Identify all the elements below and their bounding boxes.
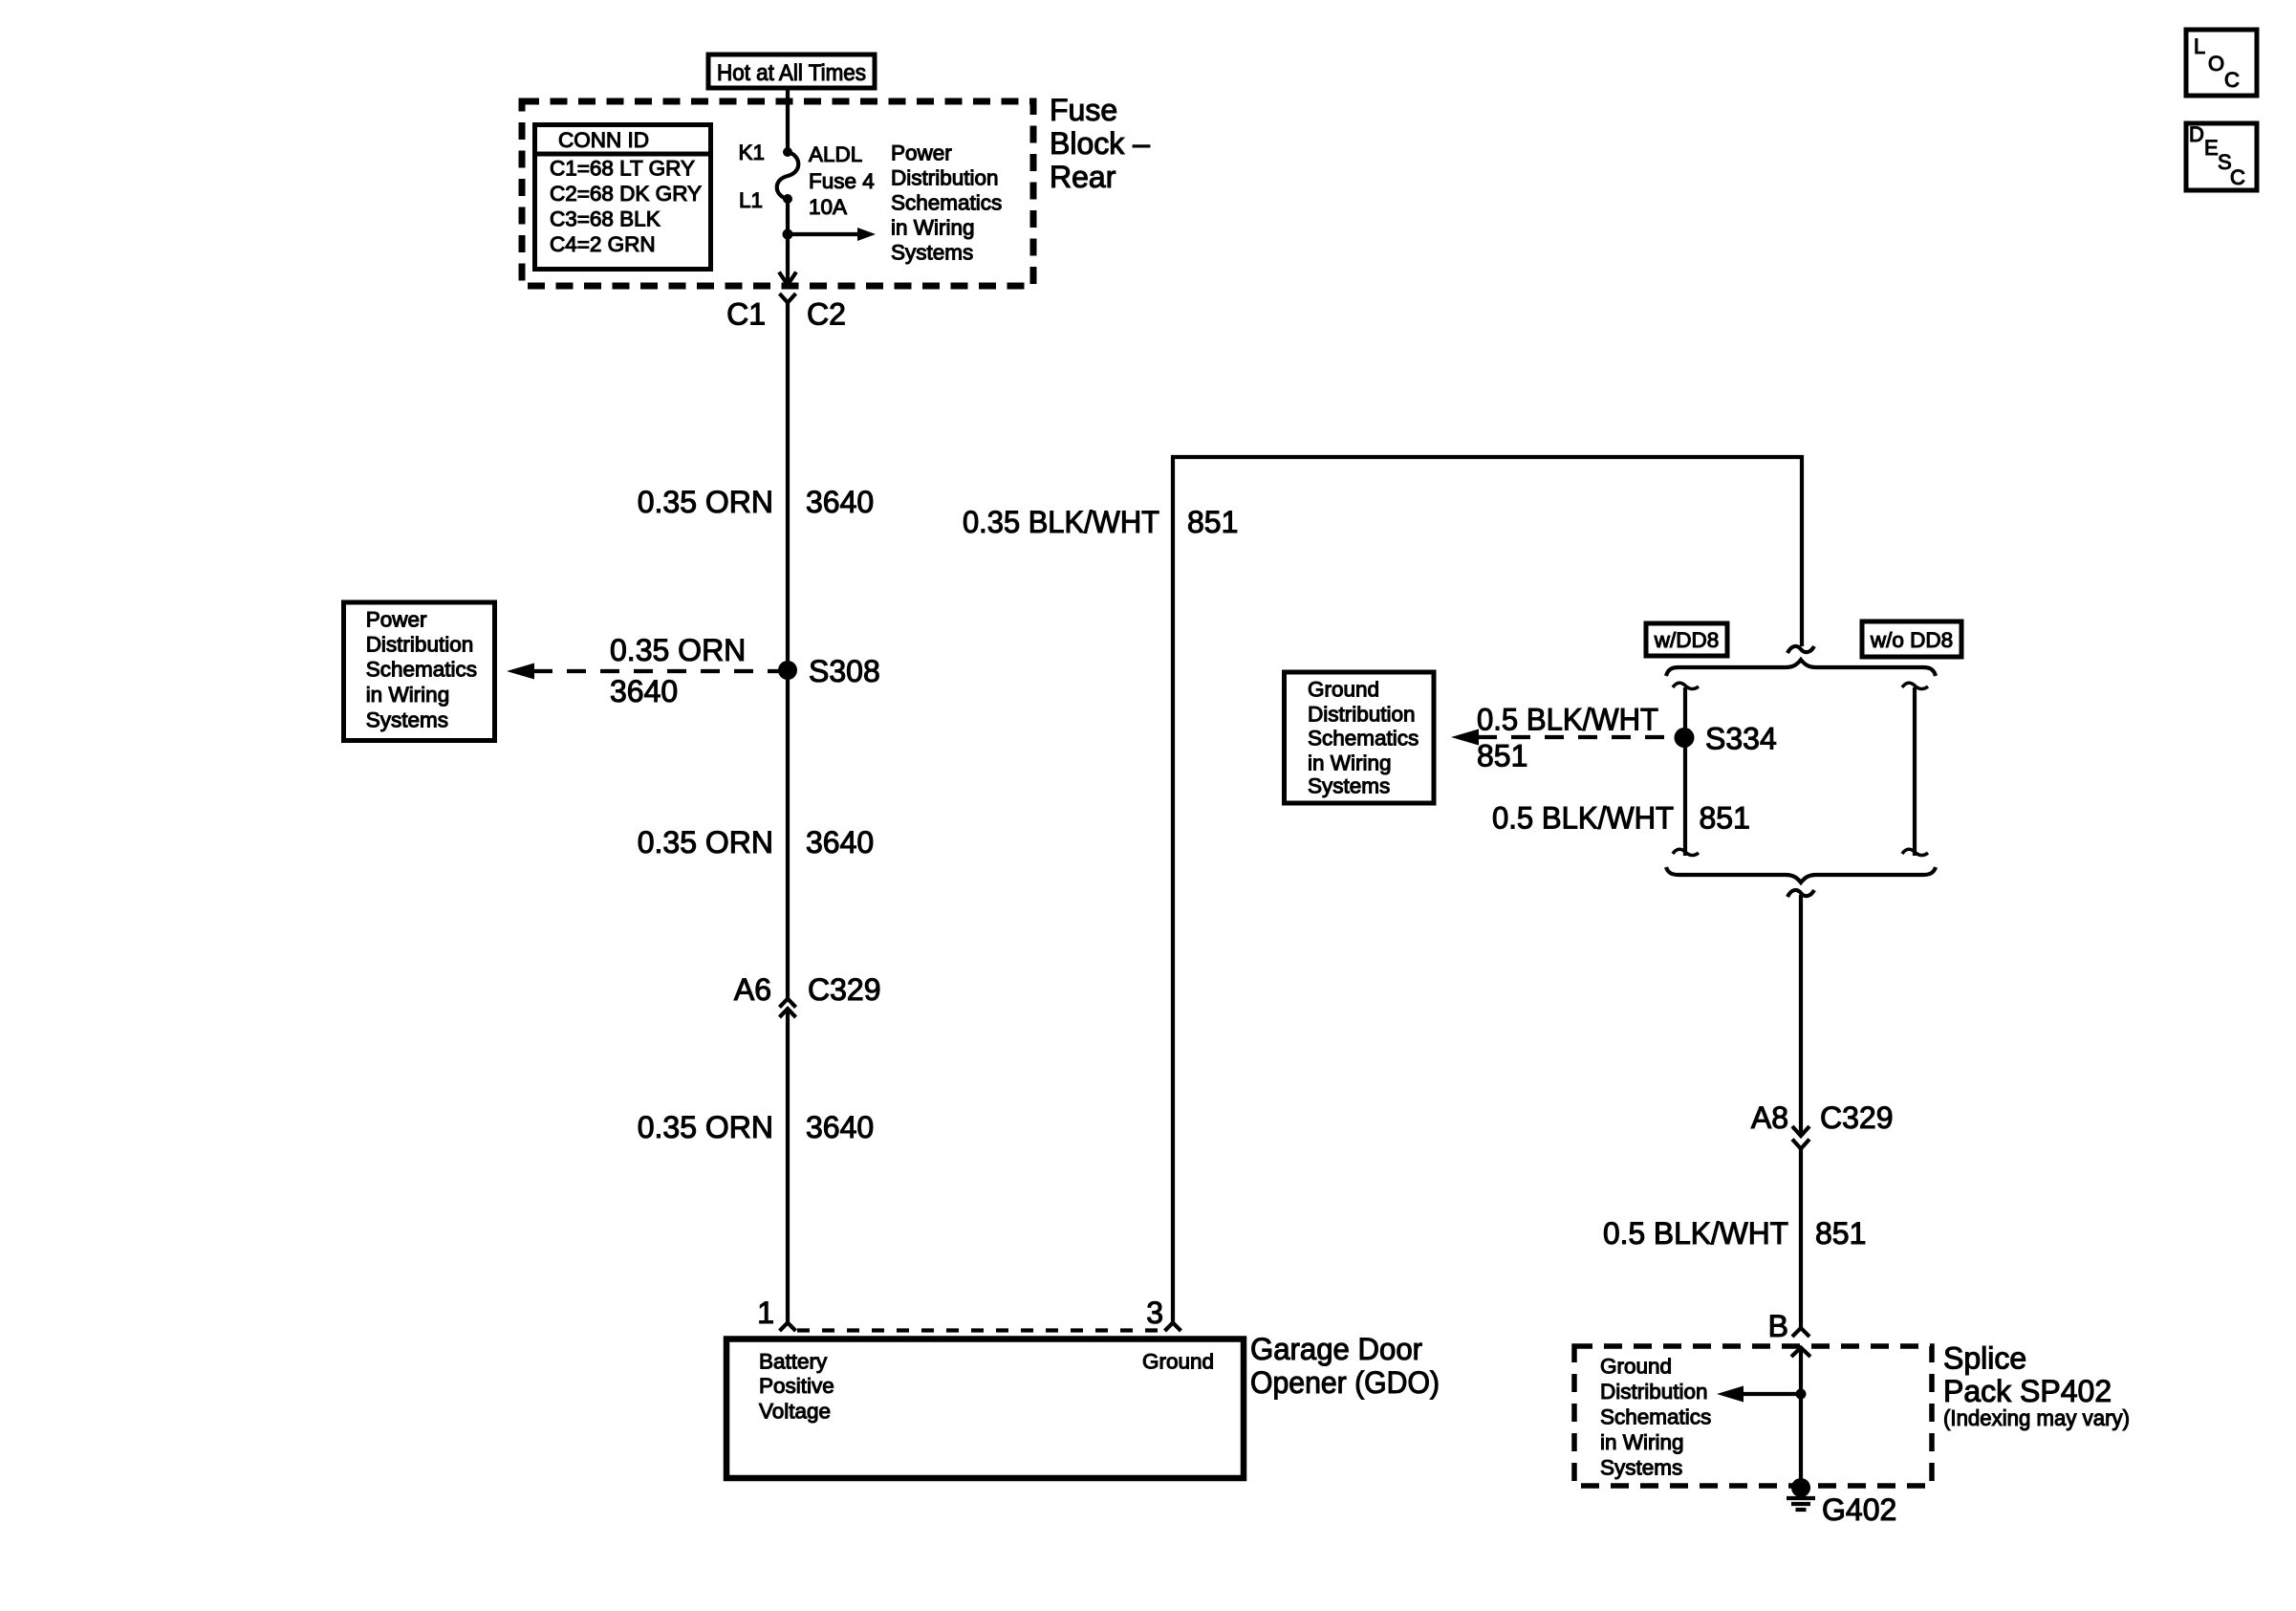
svg-text:L1: L1 [739,188,763,212]
wire A6 down to GDO pin 1 [786,1009,790,1323]
svg-text:851: 851 [1700,801,1750,836]
svg-text:w/o DD8: w/o DD8 [1870,628,1953,652]
in-line connector A8 C329 [1751,1100,1894,1149]
GDO pin 1 connector [780,1323,796,1332]
label 0.5 BLK/WHT 851 (S334 branch) [1477,703,1658,773]
Splice Pack SP402 dashed box [1574,1346,1932,1486]
svg-text:Pack SP402: Pack SP402 [1943,1374,2112,1408]
splice S334 [1675,728,1695,748]
label ALDL Fuse 4 10A [809,142,875,219]
label Garage Door Opener (GDO) [1250,1332,1440,1400]
option merge squiggle bottom [1787,890,1814,897]
svg-text:0.35 ORN: 0.35 ORN [638,825,773,860]
svg-text:Distribution: Distribution [1308,703,1416,727]
svg-text:C1=68 LT GRY: C1=68 LT GRY [550,157,695,181]
option split squiggle top [1787,646,1814,653]
svg-text:Ground: Ground [1600,1355,1672,1379]
wire label 0.35 ORN 3640 (2) [638,825,874,860]
label box w/o DD8 [1862,621,1961,657]
GDO pin labels [759,1350,1214,1424]
svg-text:3: 3 [1146,1295,1163,1330]
svg-text:Systems: Systems [1308,774,1390,798]
svg-text:Ground: Ground [1308,678,1379,702]
svg-text:0.5 BLK/WHT: 0.5 BLK/WHT [1492,801,1674,836]
svg-text:C: C [2224,68,2240,92]
svg-text:C329: C329 [808,972,881,1007]
svg-text:C2=68 DK GRY: C2=68 DK GRY [550,182,702,206]
dashed wire to Ground Distribution box [1478,735,1675,739]
arrowhead at fuse block exit [779,272,796,286]
GDO pin 3 connector [1165,1323,1181,1332]
svg-text:O: O [2208,52,2224,76]
fuse terminal L1 dot [783,194,792,204]
svg-text:3640: 3640 [806,1110,874,1144]
svg-text:w/DD8: w/DD8 [1654,628,1720,652]
svg-text:Fuse: Fuse [1050,93,1117,127]
svg-text:10A: 10A [809,195,847,219]
wire label 0.35 ORN 3640 (3) [638,1110,874,1144]
wire label 0.5 BLK/WHT 851 (lower) [1603,1216,1866,1251]
wire A8 down to splice pack [1799,1147,1803,1328]
svg-text:3640: 3640 [610,674,678,708]
svg-text:0.5 BLK/WHT: 0.5 BLK/WHT [1603,1216,1788,1251]
wire label 0.35 ORN 3640 (1) [638,485,874,519]
svg-text:0.35 BLK/WHT: 0.35 BLK/WHT [963,505,1159,539]
arrow to Power Distribution Schematics [788,228,876,241]
svg-text:C: C [2230,165,2245,189]
junction to power distribution arrow [783,229,793,240]
arrow to Ground Distribution Schematics [1717,1386,1801,1403]
Ground Distribution Schematics box [1285,672,1435,803]
svg-text:3640: 3640 [806,485,874,519]
junction dot [1796,1389,1807,1400]
svg-text:C329: C329 [1820,1100,1894,1135]
splice pack entry connector [1791,1348,1810,1358]
label Fuse Block - Rear [1050,93,1150,194]
wire inside splice pack to ground [1799,1348,1803,1489]
svg-text:Power: Power [366,608,427,632]
svg-text:Hot at All Times: Hot at All Times [717,60,866,86]
LOC button box [2186,30,2257,96]
svg-text:Schematics: Schematics [1308,727,1419,751]
svg-text:851: 851 [1815,1216,1866,1251]
svg-text:Splice: Splice [1943,1341,2026,1376]
svg-text:C3=68 BLK: C3=68 BLK [550,207,661,231]
in-line connector A6 C329 [734,972,881,1017]
fuse ALDL Fuse 4 10A element [777,152,799,199]
svg-text:1: 1 [757,1295,774,1330]
svg-text:Positive: Positive [759,1374,834,1398]
svg-text:Fuse 4: Fuse 4 [809,169,875,193]
svg-text:Systems: Systems [891,241,973,265]
label Ground Distribution Schematics in Wiring Systems (splice pack) [1600,1355,1711,1480]
bottom option brace [1666,867,1936,882]
svg-text:Schematics: Schematics [1600,1405,1711,1429]
svg-text:Voltage: Voltage [759,1400,831,1424]
svg-text:Distribution: Distribution [1600,1380,1708,1404]
svg-text:in Wiring: in Wiring [1600,1430,1684,1454]
DESC button box [2186,122,2257,190]
wire from Hot box to fuse [786,88,790,152]
svg-text:CONN ID: CONN ID [558,128,649,152]
svg-text:A6: A6 [734,972,771,1007]
svg-text:C4=2 GRN: C4=2 GRN [550,232,656,256]
svg-text:Garage Door: Garage Door [1250,1332,1422,1366]
label box w/DD8 [1646,623,1727,656]
arrowhead left [507,664,534,680]
svg-text:K1: K1 [738,141,765,164]
svg-text:0.5 BLK/WHT: 0.5 BLK/WHT [1477,703,1658,737]
svg-text:S308: S308 [809,654,880,688]
svg-text:0.35 ORN: 0.35 ORN [638,485,773,519]
top option brace [1666,660,1936,676]
svg-text:B: B [1768,1309,1788,1343]
svg-text:Schematics: Schematics [891,191,1002,215]
wire from L1 down to C1 connector [786,199,790,285]
ground G402 [1787,1478,1815,1510]
svg-text:(Indexing may vary): (Indexing may vary) [1943,1405,2130,1430]
svg-text:851: 851 [1187,505,1238,539]
svg-text:Block –: Block – [1050,126,1150,161]
Garage Door Opener box [726,1339,1244,1479]
wire GDO pin 3 up and across [1173,457,1802,1323]
svg-text:Power: Power [891,142,952,165]
svg-text:0.35 ORN: 0.35 ORN [610,633,746,667]
wire label 0.35 BLK/WHT 851 [963,505,1238,539]
svg-text:Systems: Systems [366,708,448,732]
svg-text:Distribution: Distribution [366,633,474,657]
arrowhead left [1451,729,1479,746]
CONN ID table [535,125,711,270]
svg-text:Rear: Rear [1050,160,1116,194]
svg-text:C2: C2 [807,297,846,332]
svg-text:G402: G402 [1822,1492,1896,1527]
svg-text:C1: C1 [726,297,766,332]
label Splice Pack SP402 [1943,1341,2130,1431]
svg-text:E: E [2204,136,2219,160]
label Power Distribution Schematics in Wiring Systems (fuse block) [891,142,1002,265]
right option branch (w/o DD8) [1902,683,1928,856]
svg-text:in Wiring: in Wiring [366,683,450,707]
svg-text:Battery: Battery [759,1350,828,1374]
svg-text:in Wiring: in Wiring [891,216,975,240]
GDO dashed top line [797,1328,1163,1332]
svg-text:0.35 ORN: 0.35 ORN [638,1110,773,1144]
wire down to A8 connector [1799,895,1803,1136]
svg-text:A8: A8 [1751,1100,1788,1135]
label 0.35 ORN / 3640 (S308 branch) [610,633,746,708]
wire label 0.5 BLK/WHT 851 (below S334) [1492,801,1750,836]
svg-text:S334: S334 [1705,722,1777,756]
connector C1/C2 female Y symbol [780,294,796,303]
splice S308 [778,661,797,680]
svg-text:Schematics: Schematics [366,658,477,682]
Hot at All Times label box [708,54,875,88]
Power Distribution Schematics box (left) [344,602,495,741]
fuse F4 terminal K1 dot [783,147,792,157]
svg-text:in Wiring: in Wiring [1308,751,1392,775]
svg-text:L: L [2194,34,2205,58]
svg-text:Distribution: Distribution [891,166,999,190]
svg-text:D: D [2189,122,2204,146]
fuse block dashed box [522,101,1033,286]
left option branch (w/DD8) [1673,683,1699,856]
svg-text:3640: 3640 [806,825,874,860]
svg-text:851: 851 [1477,739,1527,773]
wire C2 down to A6 connector [786,303,790,1000]
svg-text:Ground: Ground [1142,1350,1214,1374]
dashed wire to Power Distribution box [533,669,780,673]
svg-text:Systems: Systems [1600,1456,1682,1480]
svg-text:ALDL: ALDL [809,142,862,166]
svg-text:Opener (GDO): Opener (GDO) [1250,1365,1440,1400]
